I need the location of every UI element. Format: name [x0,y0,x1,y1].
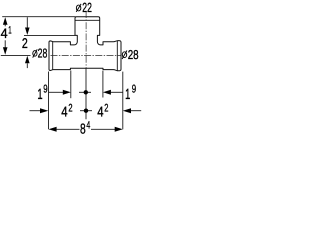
svg-text:2: 2 [104,103,108,115]
label diameter 28 right [122,52,126,58]
extension line right end bottom [122,72,124,130]
dim row1 center stub + junction dot [79,91,91,93]
svg-text:9: 9 [132,83,136,95]
svg-text:8: 8 [80,121,86,137]
dim row2 center stub + junction dot [80,110,92,112]
dimension 4.1 lower line + down arrow [4,40,6,48]
label diameter 22 top [76,5,81,11]
svg-text:22: 22 [82,0,92,15]
extension line right socket depth [102,71,104,98]
dimension 2 lower up arrow [25,56,30,64]
svg-text:1: 1 [8,24,11,36]
left socket bead inner line [52,42,54,70]
svg-text:9: 9 [43,84,47,96]
extension line center axis bottom [85,68,87,119]
dim row3 8.4 left arrow [49,127,57,132]
dim row3 8.4 right arrow [91,128,115,130]
svg-text:1: 1 [125,87,130,103]
svg-text:4: 4 [86,119,90,131]
svg-text:1: 1 [37,87,42,103]
dimension 2 upper down arrow [26,17,28,28]
svg-text:4: 4 [1,26,8,41]
right socket bead inner line [116,41,118,71]
svg-text:2: 2 [68,103,72,115]
branch axis centerline [85,11,87,68]
svg-text:28: 28 [128,47,139,62]
label diameter 28 left [33,51,37,57]
extension line top of branch (4.1 dim) [2,16,75,18]
branch socket bead inner line [75,19,100,21]
extension line left end bottom [48,72,50,130]
svg-text:4: 4 [97,105,103,121]
extension line branch socket end (2 dim) [24,34,75,36]
run axis centerline [51,54,121,56]
dim row1 left 1.9 line + right arrow [49,91,64,93]
svg-text:4: 4 [61,105,67,121]
dim row1 right 1.9 left arrow + line [103,90,111,95]
tee fitting outline [49,17,121,71]
dim row2 outside arrow left [30,110,41,112]
extension line run axis left [1,54,31,56]
dimension 4.1 upper line + up arrow [4,24,6,26]
svg-text:2: 2 [22,35,28,51]
extension line left socket depth [70,71,72,99]
svg-text:28: 28 [38,46,48,61]
dim row2 outside arrow right [123,108,131,113]
